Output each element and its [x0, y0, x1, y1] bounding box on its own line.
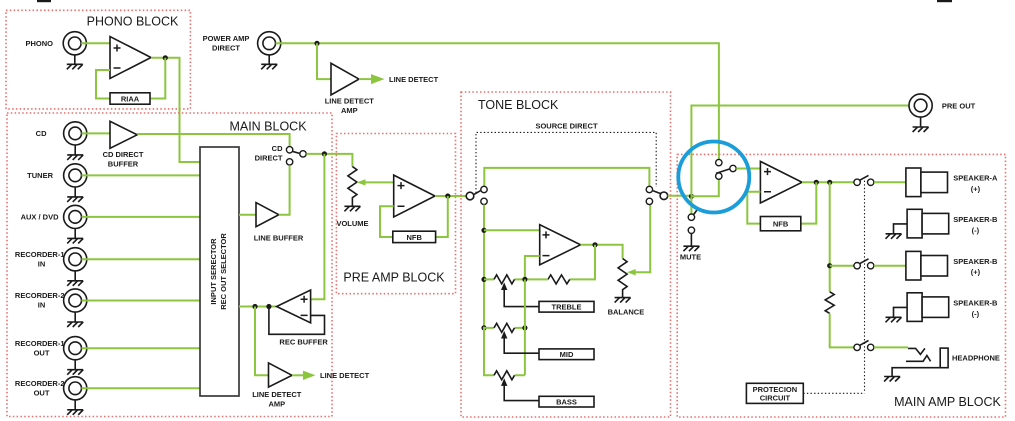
ground (RECORDER-2 IN jack) [67, 312, 83, 327]
svg-text:(-): (-) [972, 309, 980, 318]
jack PRE OUT [909, 94, 932, 117]
terminal SPEAKER-A (+) [906, 168, 948, 197]
PROTECION CIRCUIT box [746, 383, 803, 403]
jack POWER AMP DIRECT [258, 32, 281, 55]
arrow line detect output [371, 74, 385, 84]
ground (pre out jack) [913, 117, 929, 132]
svg-text:IN: IN [38, 260, 46, 269]
svg-text:RECORDER-1: RECORDER-1 [15, 339, 65, 348]
svg-text:MID: MID [560, 350, 574, 359]
node phono output junction [163, 55, 168, 60]
svg-text:RECORDER-2: RECORDER-2 [15, 379, 65, 388]
svg-text:OUT: OUT [34, 389, 50, 398]
wire mid row [484, 327, 525, 329]
svg-text:DIRECT: DIRECT [255, 153, 283, 162]
op-amp LINE DETECT AMP (bottom) [269, 363, 293, 387]
NFB box (main amp) [760, 217, 800, 231]
switch MUTE [688, 208, 699, 234]
wire RECORDER-2 OUT to selector [82, 387, 201, 389]
svg-text:PHONO: PHONO [25, 39, 53, 48]
wire switch to speaker A terminal [874, 181, 906, 183]
switch tone input [466, 186, 487, 204]
TREBLE box [539, 301, 594, 312]
wire CD buffer output to CD direct switch [137, 134, 289, 147]
wire to tone op-amp plus [484, 229, 540, 231]
wire CD jack to CD direct buffer [82, 132, 111, 134]
arrow line detect output (bottom) [303, 371, 316, 380]
node tone output junction [592, 242, 597, 247]
node rec buffer feedback junction [266, 304, 271, 309]
wire to speaker B switch [830, 265, 854, 267]
wire treble row [484, 278, 525, 280]
node treble row left [481, 277, 486, 282]
op-amp tone [540, 225, 581, 265]
wire NFB to output junction (main) [801, 182, 817, 223]
wire op-amp output to corner [151, 58, 200, 162]
node main amp bus junction [827, 180, 832, 185]
svg-text:INPUT SERECTOR: INPUT SERECTOR [209, 238, 218, 305]
wire feedback from minus input down to RIAA [96, 70, 110, 99]
wiper arrow bass [501, 378, 507, 386]
ground (TUNER jack) [67, 187, 83, 202]
wire branch down to line detect amp (bottom) [255, 307, 269, 376]
ground (volume) [344, 203, 360, 211]
potentiometer VOLUME [348, 167, 394, 204]
op-amp pre amp [394, 175, 435, 217]
wire resistor to headphone switch [830, 313, 854, 347]
wire tone bus vertical [483, 205, 485, 327]
switch speaker A [854, 175, 874, 185]
svg-text:OUT: OUT [34, 348, 50, 357]
BASS box [539, 396, 594, 407]
svg-text:SPEAKER-B: SPEAKER-B [953, 215, 998, 224]
ground (RECORDER-1 IN jack) [67, 271, 83, 286]
svg-text:RECORDER-1: RECORDER-1 [15, 250, 65, 259]
svg-text:AMP: AMP [268, 399, 285, 408]
svg-text:SPEAKER-A: SPEAKER-A [953, 174, 998, 183]
node pre amp output junction [445, 193, 450, 198]
ground (CD jack) [67, 145, 83, 160]
svg-text:(-): (-) [972, 226, 980, 235]
wire RECORDER-1 OUT to selector [82, 347, 201, 349]
jack RECORDER-1 OUT [64, 337, 87, 360]
potentiometer MID [494, 323, 539, 353]
node mid row right [522, 325, 527, 330]
resistor tone feedback [548, 275, 570, 284]
jack RECORDER-1 IN [64, 248, 87, 271]
wire junction down to mute [690, 196, 692, 213]
svg-text:PHONO BLOCK: PHONO BLOCK [87, 14, 179, 28]
source direct dotted outline [476, 132, 656, 193]
node speaker B plus branch [827, 263, 832, 268]
wire rec buffer output to selector [239, 306, 277, 308]
svg-text:REC OUT SELECTOR: REC OUT SELECTOR [219, 233, 228, 310]
wire tone output to main amp [668, 195, 692, 197]
svg-text:VOLUME: VOLUME [336, 219, 368, 228]
jack RECORDER-2 IN [64, 289, 87, 312]
wiper arrow treble [501, 282, 507, 290]
potentiometer TREBLE [494, 275, 539, 307]
svg-text:REC BUFFER: REC BUFFER [279, 337, 328, 346]
svg-text:LINE DETECT: LINE DETECT [252, 390, 302, 399]
svg-text:BUFFER: BUFFER [108, 159, 139, 168]
op-amp REC BUFFER (points left) [277, 290, 311, 323]
op-amp main amp [760, 161, 802, 203]
main block dashed border [7, 113, 332, 417]
main amp block dashed border [677, 154, 1005, 417]
svg-text:RECORDER-2: RECORDER-2 [15, 291, 65, 300]
ground (balance) [615, 297, 631, 303]
svg-text:DIRECT: DIRECT [212, 44, 240, 53]
pre amp block dashed border [336, 134, 455, 294]
svg-text:BALANCE: BALANCE [608, 308, 645, 317]
terminal SPEAKER-B (+) [906, 251, 948, 280]
wire RIAA to output junction [150, 58, 165, 99]
RIAA box [110, 93, 150, 104]
jack TUNER [64, 164, 87, 187]
potentiometer BALANCE [618, 205, 650, 297]
svg-text:(+): (+) [971, 184, 981, 193]
wire RECORDER-1 IN to selector [82, 258, 201, 260]
svg-text:SPEAKER-B: SPEAKER-B [953, 257, 998, 266]
wire AUX to selector [82, 216, 201, 218]
svg-text:TREBLE: TREBLE [552, 303, 582, 312]
jack AUX / DVD [64, 205, 87, 228]
wire line detect amp output [359, 78, 371, 80]
svg-text:SOURCE DIRECT: SOURCE DIRECT [535, 122, 598, 131]
wire tone output [581, 245, 623, 259]
svg-text:AMP: AMP [341, 106, 358, 115]
ground (phono jack) [67, 55, 83, 69]
svg-text:LINE DETECT: LINE DETECT [320, 371, 370, 380]
ground (mute) [683, 234, 699, 252]
wire minus node vertical [524, 279, 526, 375]
svg-text:LINE DETECT: LINE DETECT [389, 75, 439, 84]
tone block dashed border [461, 92, 671, 417]
switch tone output [646, 186, 668, 204]
ground (power amp direct jack) [261, 55, 277, 69]
op-amp line detect amp (top) [331, 63, 359, 95]
highlight blue circle [678, 142, 749, 213]
node mid row left [481, 325, 486, 330]
ground (RECORDER-1 OUT jack) [67, 360, 83, 375]
wire power amp direct main run [276, 43, 719, 159]
wire CD direct switch common to volume [306, 154, 352, 167]
dotted link protecion circuit [803, 392, 864, 394]
svg-text:NFB: NFB [773, 220, 789, 229]
svg-text:BASS: BASS [556, 397, 577, 406]
svg-text:TONE BLOCK: TONE BLOCK [478, 98, 559, 112]
wire line buffer output up to CD direct switch [279, 165, 290, 215]
wire pre amp output [435, 195, 466, 197]
op-amp U1 (phono eq amp) [110, 37, 151, 79]
svg-text:TUNER: TUNER [27, 171, 53, 180]
wire switch common to main op-amp [736, 168, 760, 170]
ganged switch dotted linkage [864, 177, 866, 393]
svg-text:NFB: NFB [406, 233, 422, 242]
wiper arrow mid [501, 331, 507, 339]
wire tone feedback right leg [570, 245, 595, 280]
wire RECORDER-2 IN to selector [82, 300, 201, 302]
wire junction up to pre out [691, 106, 909, 197]
svg-text:POWER AMP: POWER AMP [203, 34, 250, 43]
op-amp LINE BUFFER [256, 203, 279, 227]
phono block dashed border [6, 10, 190, 109]
wire source direct bypass [484, 168, 649, 186]
wire switch to speaker B terminal [874, 265, 906, 267]
svg-text:LINE BUFFER: LINE BUFFER [254, 234, 304, 243]
svg-text:LINE DETECT: LINE DETECT [325, 97, 375, 106]
svg-text:CD: CD [272, 144, 283, 153]
node power amp direct branch [314, 41, 319, 46]
wire feedback resistor to minus node [525, 256, 548, 279]
node tone plus branch [481, 228, 486, 233]
svg-text:MAIN BLOCK: MAIN BLOCK [229, 120, 307, 134]
svg-text:PRE AMP BLOCK: PRE AMP BLOCK [343, 270, 445, 284]
wire branch down to line detect amp [317, 43, 331, 79]
resistor headphone dropper [825, 292, 834, 314]
svg-text:MAIN AMP BLOCK: MAIN AMP BLOCK [894, 395, 1001, 409]
svg-text:CD: CD [36, 129, 47, 138]
node main amp feedback junction [814, 180, 819, 185]
NFB box (pre amp) [393, 231, 436, 242]
terminal SPEAKER-B (-) row2 [907, 209, 949, 238]
wire/feedback rec buffer minus loop [269, 307, 325, 335]
svg-text:HEADPHONE: HEADPHONE [952, 353, 1000, 362]
stray cropped text mark top-left [37, 0, 51, 2]
switch speaker B [854, 259, 874, 269]
ground (speaker B minus row4) [886, 307, 908, 322]
wire line detect amp output [292, 374, 303, 376]
jack HEADPHONE [884, 348, 948, 381]
op-amp CD DIRECT BUFFER [110, 121, 137, 148]
svg-text:PRE OUT: PRE OUT [942, 102, 976, 111]
svg-text:SPEAKER-B: SPEAKER-B [953, 299, 998, 308]
switch CD DIRECT [286, 147, 306, 165]
svg-text:MUTE: MUTE [680, 252, 701, 261]
ground (AUX jack) [67, 229, 83, 244]
node tone output / preout junction [689, 194, 694, 199]
svg-text:IN: IN [38, 301, 46, 310]
stray cropped text mark top-right [937, 0, 952, 2]
svg-text:CD DIRECT: CD DIRECT [103, 150, 144, 159]
ground (speaker B minus row2) [886, 224, 908, 239]
wire output bus vertical [829, 182, 831, 291]
jack RECORDER-2 OUT [64, 377, 87, 400]
wire main amp output [802, 181, 854, 183]
wire feedback minus to NFB (main) [747, 192, 760, 224]
node CD direct / volume junction [322, 151, 327, 156]
wire selector to line buffer [239, 214, 256, 216]
jack CD [64, 122, 87, 145]
svg-text:(+): (+) [971, 268, 981, 277]
wire bass row [484, 327, 525, 376]
wire NFB to output junction [436, 196, 448, 237]
input selector / rec out selector box [200, 147, 239, 396]
wire feedback minus to NFB [380, 206, 394, 237]
switch power amp direct / preamp select [716, 159, 737, 179]
svg-text:RIAA: RIAA [121, 94, 140, 103]
svg-text:CIRCUIT: CIRCUIT [760, 394, 791, 403]
wire TUNER to selector [82, 174, 201, 176]
wire junction down to rec buffer plus input [311, 154, 325, 299]
jack PHONO [63, 32, 86, 55]
potentiometer BASS [494, 371, 539, 401]
switch headphone [854, 341, 874, 351]
wire switch to headphone jack [874, 346, 908, 348]
node rec buffer line-detect branch [252, 304, 257, 309]
MID box [539, 349, 594, 360]
ground (RECORDER-2 OUT jack) [67, 400, 83, 415]
terminal SPEAKER-B (-) row4 [907, 293, 949, 322]
node treble row right [522, 277, 527, 282]
svg-text:AUX / DVD: AUX / DVD [21, 213, 60, 222]
wire phono jack to op-amp [81, 42, 110, 44]
wire junction to power amp switch [691, 179, 718, 196]
